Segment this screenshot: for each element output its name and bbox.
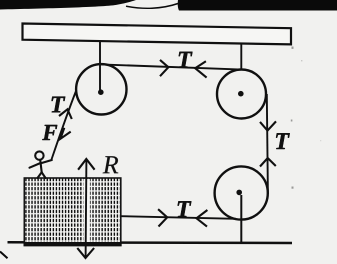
label T right rope <box>276 133 290 149</box>
left leg <box>38 172 42 178</box>
block bottom edge merged with ground <box>24 242 122 246</box>
axle dot lower pulley <box>236 190 242 196</box>
right arm holding rope <box>41 160 52 163</box>
right leg <box>42 172 46 178</box>
R force line (double arrow) <box>85 160 88 258</box>
support post lower pulley <box>240 195 242 243</box>
wire: top rope between pulleys <box>101 64 242 69</box>
top scan black band <box>0 0 136 10</box>
label T bottom rope <box>178 201 192 217</box>
white gap for R line through block <box>84 179 90 242</box>
label T left rope <box>52 97 66 113</box>
body <box>40 160 42 173</box>
wire: right vertical rope <box>267 94 268 194</box>
label R <box>103 156 119 173</box>
ground line <box>8 241 293 244</box>
faint scan speckles <box>291 47 322 189</box>
head <box>35 151 43 159</box>
wavy pen line in band notch <box>126 4 178 9</box>
hanger wire left pulley <box>99 41 101 91</box>
pulley left <box>76 64 126 114</box>
bottom-left corner artifact <box>0 252 8 259</box>
left arm <box>30 163 41 168</box>
wire: bottom rope block to pulley <box>121 216 236 219</box>
arrow left on bottom rope <box>197 210 208 227</box>
arrow right on bottom rope <box>158 209 167 226</box>
pulley lower right <box>215 166 268 219</box>
arrow down R <box>77 248 94 258</box>
axle dot left pulley <box>98 89 104 95</box>
pulley upper right <box>217 70 266 119</box>
arrow right on top rope <box>160 60 168 76</box>
hanger wire right pulley <box>240 44 242 71</box>
block (hatched) <box>24 178 121 246</box>
arrow down on right rope <box>260 121 276 130</box>
ceiling beam <box>23 24 292 45</box>
label T top rope <box>179 52 193 68</box>
axle dot upper right pulley <box>238 91 244 97</box>
arrow T on left rope (up-right) <box>59 109 72 119</box>
arrow up on right rope <box>260 158 276 167</box>
arrow up R <box>78 159 95 170</box>
arrow left on top rope <box>195 61 206 77</box>
wire: rope from left pulley to man <box>52 91 77 160</box>
arrow F on left rope (down-left) <box>60 128 70 139</box>
stick figure man <box>30 151 52 178</box>
label F <box>42 125 57 140</box>
